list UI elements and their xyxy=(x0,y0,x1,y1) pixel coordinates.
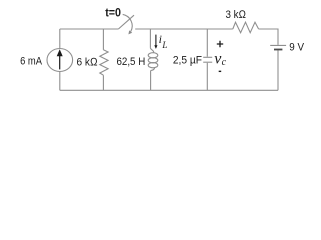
svg-text:L: L xyxy=(161,40,167,50)
svg-text:62,5 H: 62,5 H xyxy=(117,56,146,68)
inductor L coil exit curve xyxy=(151,67,155,70)
svg-text:9 V: 9 V xyxy=(289,42,304,54)
wire 6k bottom lead xyxy=(102,75,104,90)
svg-text:3 kΩ: 3 kΩ xyxy=(226,9,247,21)
svg-text:6 mA: 6 mA xyxy=(20,56,42,68)
switch arc arrowhead xyxy=(128,30,132,34)
wire current-source bottom lead xyxy=(59,71,61,90)
wire 6k top lead xyxy=(102,29,104,50)
svg-text:t=0: t=0 xyxy=(105,6,121,20)
capacitor C top plate xyxy=(203,56,212,58)
svg-text:2,5 µF: 2,5 µF xyxy=(173,55,202,67)
wire capacitor bottom lead xyxy=(206,63,208,91)
wire resistor to battery corner xyxy=(259,29,278,45)
wire inductor bottom lead xyxy=(150,71,152,91)
capacitor C bottom plate xyxy=(203,61,212,63)
inductor L coil entry curve xyxy=(150,48,153,53)
switch closing arc xyxy=(123,14,132,31)
wire bottom rail xyxy=(60,89,278,91)
battery V1 short thick plate xyxy=(274,49,282,51)
switch blade t=0 xyxy=(118,15,134,29)
battery V1 long plate xyxy=(270,44,286,46)
inductor L 62,5H coil loops xyxy=(148,53,158,58)
current source I1 circle xyxy=(47,49,73,72)
wire current-source top lead xyxy=(59,29,61,48)
wire top-left horizontal xyxy=(60,28,119,30)
wire capacitor top lead xyxy=(206,29,208,57)
resistor R 3 kOhm zigzag xyxy=(233,22,259,33)
label plus sign xyxy=(217,41,223,47)
iL current arrow xyxy=(155,35,157,46)
wire inductor top lead xyxy=(149,29,151,48)
resistor 6 kOhm zigzag xyxy=(100,50,108,75)
wire switch right contact to resistor xyxy=(135,28,233,30)
svg-text:c: c xyxy=(222,57,227,68)
battery V1 bottom lead xyxy=(277,50,279,90)
svg-text:6 kΩ: 6 kΩ xyxy=(77,56,99,68)
current source arrow xyxy=(59,56,61,70)
label minus sign xyxy=(219,70,222,72)
